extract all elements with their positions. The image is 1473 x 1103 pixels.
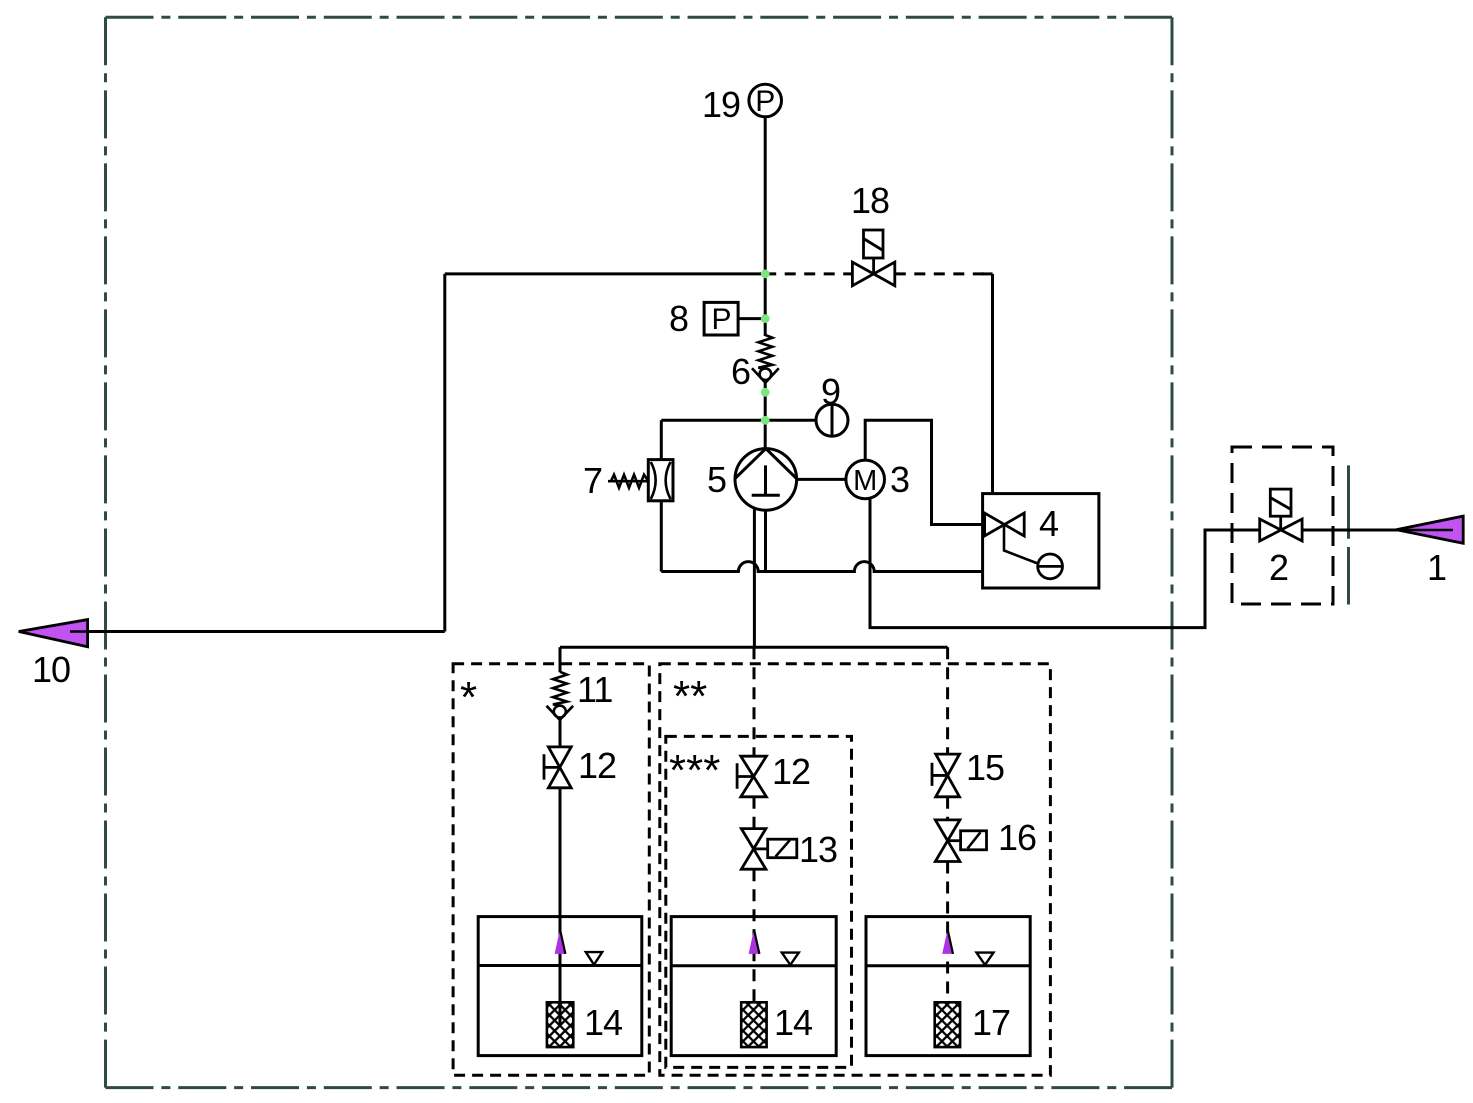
level mark tank 2 — [782, 953, 799, 965]
gauge 9 — [816, 404, 848, 436]
svg-text:3: 3 — [890, 459, 910, 500]
wire top inner horizontal to gauge 9 — [661, 419, 816, 422]
svg-text:***: *** — [669, 746, 720, 795]
wire dashed drop 3 upper — [946, 647, 949, 754]
enclosure box *** — [666, 736, 852, 1067]
svg-text:13: 13 — [799, 829, 837, 870]
solenoid valve 18 — [852, 230, 894, 286]
tank 2 — [671, 917, 836, 1056]
wire manifold — [560, 646, 948, 649]
wire valve 2 to arrow 1 — [1302, 529, 1454, 532]
svg-text:16: 16 — [998, 817, 1036, 858]
level mark tank 1 — [586, 952, 602, 965]
svg-text:15: 15 — [966, 747, 1004, 788]
svg-text:18: 18 — [851, 180, 889, 221]
node dot y=420.3 — [761, 416, 770, 425]
wire horizontal line y=274 — [445, 272, 765, 275]
wire pump center to bus — [764, 510, 767, 571]
system boundary dash-dot border — [106, 17, 1173, 1087]
svg-text:P: P — [711, 303, 731, 336]
boundary segment right — [1347, 465, 1350, 604]
svg-text:1: 1 — [1427, 547, 1447, 588]
wire dashed drop 2 middle — [753, 797, 756, 829]
flow arrow tank 3 — [942, 929, 953, 954]
solenoid valve 16 — [935, 820, 986, 862]
level mark tank 3 — [977, 953, 994, 965]
wire pump to motor — [797, 478, 846, 481]
wire dashed control line valve 18 to corner — [895, 272, 993, 275]
wire drop 1 to spring 11 — [559, 647, 562, 672]
damper 7 — [608, 460, 673, 501]
motor 3 — [846, 460, 885, 499]
node dot y=274 — [761, 270, 770, 279]
pressure sensor 8 — [704, 302, 738, 336]
vacuum pump 5 — [735, 449, 797, 511]
svg-text:10: 10 — [32, 649, 70, 690]
manual valve 12 first — [544, 747, 571, 788]
tank 1 — [478, 917, 642, 1056]
relief check valve 6 — [752, 335, 779, 383]
wire pump outlet down to manifold — [753, 508, 756, 647]
svg-text:17: 17 — [972, 1002, 1010, 1043]
relief check valve 11 — [547, 672, 574, 720]
solenoid valve 2 — [1260, 489, 1302, 541]
pressure gauge 19 — [749, 84, 782, 118]
node dot y=392.3 — [761, 388, 770, 397]
wire bottom bus with crossover bumps — [661, 562, 982, 572]
wire pipe below check valve 6 to pump — [764, 383, 767, 449]
controller box 4 — [983, 494, 1099, 588]
wire sensor 8 to pipe — [738, 317, 765, 320]
enclosure box * — [453, 664, 649, 1076]
flow arrow 10 — [19, 620, 88, 647]
wire dashed cap — [982, 272, 993, 275]
wire drop 1 check to valve 12 — [559, 720, 562, 747]
wire drop 1 valve 12 to frit — [559, 788, 562, 1025]
svg-text:5: 5 — [707, 459, 727, 500]
flow arrow 1 — [1396, 516, 1463, 543]
svg-text:**: ** — [673, 672, 707, 721]
wire left inner vertical lower — [660, 501, 663, 572]
wire dashed drop 2 lower — [753, 869, 756, 1004]
wire motor top to corner to box 4 — [865, 420, 982, 524]
svg-text:P: P — [755, 85, 775, 118]
flow arrow tank 1 — [555, 929, 566, 954]
tank 3 — [866, 917, 1030, 1056]
svg-text:11: 11 — [577, 669, 612, 710]
svg-text:12: 12 — [578, 745, 616, 786]
svg-text:8: 8 — [669, 298, 689, 339]
wire vertical from control line to box 4 — [991, 274, 994, 494]
svg-text:12: 12 — [772, 751, 810, 792]
node dot y=318.6 — [761, 314, 770, 323]
solenoid valve 13 — [741, 829, 797, 870]
wire dashed drop 3 middle — [946, 797, 949, 820]
wire outlet line to arrow 10 — [72, 630, 445, 633]
wire left inner vertical upper — [660, 420, 663, 459]
wire dashed drop 3 lower — [946, 862, 949, 1005]
svg-text:6: 6 — [731, 351, 751, 392]
wire left vertical x=444.8 — [443, 274, 446, 632]
svg-text:M: M — [853, 465, 877, 497]
enclosure box ** — [660, 664, 1051, 1076]
manual valve 12 second — [737, 756, 766, 797]
manual valve 15 — [932, 754, 960, 797]
enclosure box around valve 2 — [1232, 447, 1333, 604]
svg-text:4: 4 — [1039, 503, 1059, 544]
frit 14 tank 2 — [741, 1002, 766, 1047]
svg-text:19: 19 — [702, 84, 740, 125]
wire main vertical pipe from gauge 19 — [764, 117, 767, 336]
svg-text:2: 2 — [1269, 547, 1289, 588]
flow arrow tank 2 — [749, 929, 760, 954]
svg-text:*: * — [460, 673, 477, 722]
wire dashed control line to valve 18 — [765, 272, 852, 275]
svg-text:14: 14 — [774, 1002, 812, 1043]
wire motor drop to valve 2 line — [870, 498, 1260, 627]
frit 17 tank 3 — [935, 1002, 960, 1047]
svg-text:14: 14 — [584, 1002, 622, 1043]
svg-text:7: 7 — [583, 460, 603, 501]
wire dashed drop 2 upper — [753, 647, 756, 756]
frit 14 tank 1 — [547, 1002, 573, 1047]
svg-text:9: 9 — [821, 371, 841, 412]
